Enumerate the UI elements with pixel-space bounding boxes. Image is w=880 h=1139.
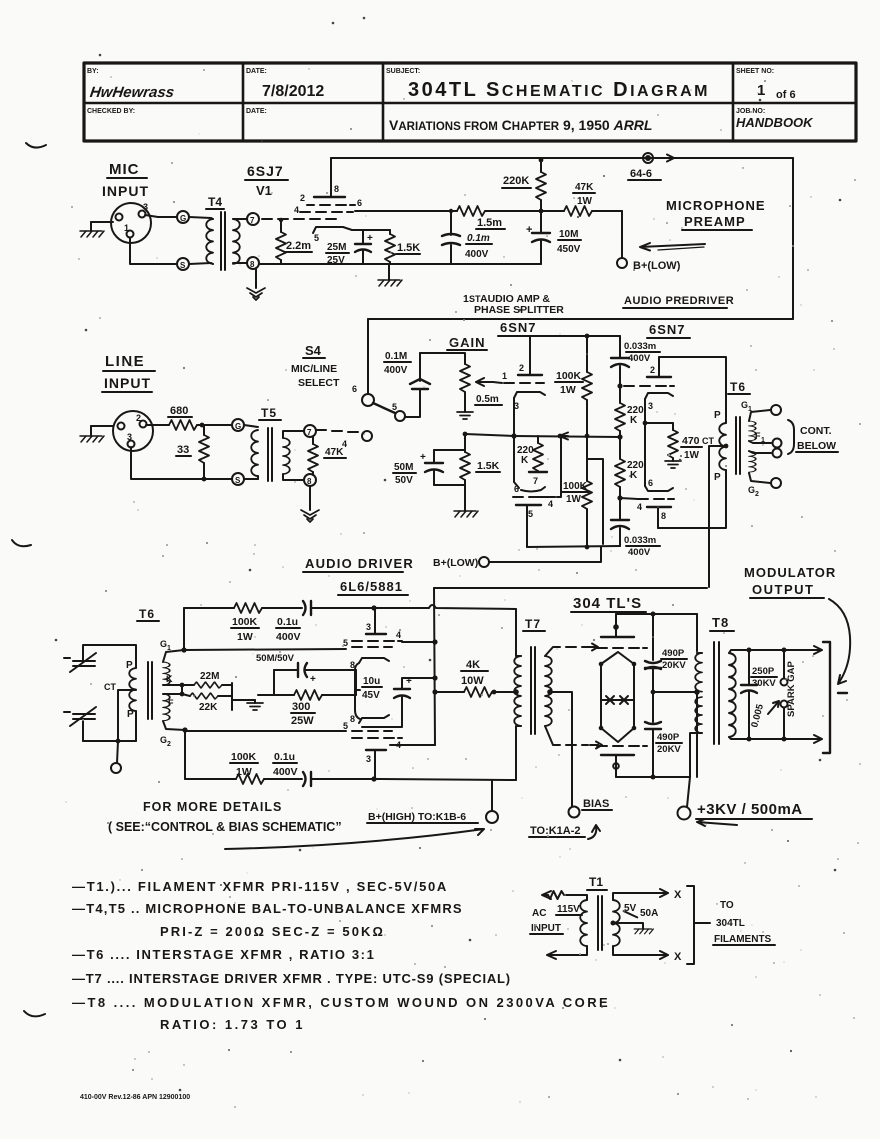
svg-text:6: 6 [648, 478, 653, 488]
svg-text:3: 3 [143, 202, 148, 212]
svg-text:0.033m: 0.033m [624, 341, 656, 352]
0.1m 400V value label [465, 233, 492, 260]
T7 secondary CT to bias [547, 689, 572, 806]
304TL lower plate [601, 755, 634, 777]
svg-text:50A: 50A [640, 908, 658, 919]
47K 1W value label [573, 182, 595, 207]
svg-text:1.5K: 1.5K [477, 460, 500, 472]
T6 bottom CT tap [104, 682, 136, 741]
grid resistor 22K [182, 693, 232, 699]
svg-text:4: 4 [294, 205, 299, 215]
svg-text:490P: 490P [662, 648, 685, 659]
svg-text:2: 2 [167, 741, 171, 748]
6SJ7 screen grid dashes [300, 211, 353, 213]
svg-text:BIAS: BIAS [583, 798, 609, 810]
note T8 line2 [160, 1017, 305, 1032]
wire line pin3 down to terminal S [131, 447, 232, 479]
T6 bottom secondary upper [163, 662, 170, 685]
wire terminal 8 to ground [309, 486, 311, 510]
10u 45V value label [362, 676, 382, 701]
output bottom wire with arrow [747, 735, 823, 743]
flat ground under 470 [665, 461, 681, 468]
47K value label line [324, 447, 346, 458]
punch hole mark top-left [26, 143, 46, 148]
wire cathode node [352, 229, 390, 231]
304TL upper plate [601, 614, 634, 637]
svg-text:2: 2 [300, 193, 305, 203]
svg-text:7/8/2012: 7/8/2012 [262, 83, 324, 100]
6SJ7 cathode [313, 227, 352, 243]
T6 secondary winding lower [749, 451, 756, 472]
wire ground to line connector [91, 425, 113, 427]
svg-text:S4: S4 [305, 343, 322, 358]
304TL lower grid dashes [597, 745, 647, 747]
svg-text:8: 8 [334, 184, 339, 194]
svg-text:INPUT: INPUT [102, 183, 149, 199]
L wire to B plus low [587, 459, 603, 544]
T8 secondary winding [729, 653, 736, 737]
svg-text:CONT.: CONT. [800, 425, 832, 437]
svg-text:1W: 1W [237, 631, 253, 643]
T7 core [531, 647, 535, 734]
1.5K value label first 6SN7 [476, 460, 500, 472]
svg-text:6SN7: 6SN7 [649, 322, 686, 337]
470 1W value label [681, 435, 702, 461]
6L6 lower screen feed [402, 744, 435, 746]
T8 core [714, 642, 719, 744]
shared cathode bracket [355, 663, 360, 719]
T6 center tap wire [709, 444, 728, 587]
contact symbol upper left [64, 653, 96, 672]
neutralizing cap 490P 20KV lower [645, 692, 661, 777]
T1 secondary bottom to X [613, 946, 682, 963]
cathode network node wire [258, 670, 274, 695]
cathode resistor 300 25W [274, 690, 356, 700]
svg-text:4: 4 [548, 499, 553, 509]
wire T5 secondary top to terminal 7 [283, 431, 304, 438]
T6 primary winding top [719, 423, 726, 470]
T6 core [736, 417, 740, 474]
line XLR connector [113, 411, 153, 451]
wire upper contact to T6 primary top [83, 645, 136, 668]
svg-text:T6: T6 [139, 607, 155, 621]
svg-text:4: 4 [342, 439, 347, 449]
svg-text:K: K [630, 470, 638, 481]
T6 bottom ground rail [83, 739, 136, 744]
svg-text:0.1u: 0.1u [277, 616, 298, 628]
svg-text:1.5m: 1.5m [477, 217, 502, 229]
4K 10W value label [461, 659, 488, 687]
svg-text:—T7 .... INTERSTAGE DRIVER XFM: —T7 .... INTERSTAGE DRIVER XFMR . TYPE: … [72, 971, 511, 986]
svg-text:100K: 100K [563, 481, 588, 492]
arrow on top rail [664, 155, 674, 162]
output top wire with arrow [747, 646, 823, 654]
grid resistor tie bar [232, 683, 255, 710]
svg-text:3: 3 [366, 754, 371, 764]
title block column divider 1 [242, 63, 245, 141]
chevron ground under T5 [301, 510, 319, 522]
svg-text:470: 470 [682, 435, 700, 447]
svg-text:6: 6 [352, 384, 357, 394]
svg-text:1W: 1W [577, 196, 593, 207]
svg-text:220K: 220K [503, 175, 529, 187]
wire T4 secondary top to terminal 7 [233, 218, 247, 220]
terminal circle S line [232, 473, 244, 485]
T1 secondary CT ground [611, 921, 654, 934]
output mark dash [838, 692, 847, 694]
mid rail of first 6SN7 [514, 433, 623, 440]
svg-text:6: 6 [357, 198, 362, 208]
MODULATOR OUTPUT label [744, 565, 836, 598]
4K 10W resistor [432, 687, 516, 697]
wire B+ drop to terminal [621, 211, 623, 258]
svg-text:45V: 45V [362, 690, 380, 701]
T5 secondary winding [283, 438, 290, 474]
T1 primary winding [580, 900, 587, 946]
1.5K value label [396, 242, 420, 254]
T6 primary P labels [702, 410, 721, 483]
490P 20KV lower label [656, 732, 682, 755]
T7 primary winding [513, 609, 521, 780]
S4 line contact [362, 431, 372, 441]
preamp pointer arrow [640, 243, 705, 251]
wire gain wiper to 6SN7 grid [493, 382, 502, 383]
6L6 lower tube unit [350, 714, 402, 779]
T4 primary winding [206, 218, 213, 264]
cathode resistor 470 1W [668, 423, 678, 461]
svg-text:490P: 490P [657, 732, 680, 743]
svg-text:CT: CT [702, 436, 714, 446]
svg-text:FOR MORE DETAILS: FOR MORE DETAILS [143, 800, 282, 814]
note T1 filament xfmr [72, 879, 448, 894]
0.1u 400V bottom label [273, 751, 298, 778]
dashed wire terminal 7 to S4 line contact [316, 430, 358, 449]
svg-text:AUDIO DRIVER: AUDIO DRIVER [305, 556, 414, 571]
S4 switch label [291, 343, 340, 389]
screen bus top corner wire [434, 587, 707, 589]
svg-text:0.1u: 0.1u [274, 751, 295, 763]
svg-text:CT: CT [104, 682, 116, 692]
F2 node wire [163, 685, 184, 708]
B+(HIGH) label and terminal [367, 780, 498, 823]
490P 20KV upper label [661, 648, 687, 671]
svg-text:1W: 1W [566, 494, 582, 505]
wire G to T4 primary [189, 217, 211, 218]
resistor 680 [169, 420, 204, 430]
wire rail down to S4 mic contact [367, 319, 369, 394]
svg-text:LINE: LINE [105, 353, 145, 370]
svg-text:BY:: BY: [87, 68, 99, 75]
6SN7c cathode [645, 393, 673, 411]
svg-text:400V: 400V [276, 631, 301, 643]
grid resistor 22M [182, 682, 232, 688]
punch hole mark bottom-left [24, 1011, 45, 1016]
svg-text:5: 5 [343, 721, 348, 731]
splitter resistor 220K first [529, 436, 547, 486]
svg-text:+: + [310, 674, 316, 685]
feedback cap 0.1u 400V top [303, 601, 377, 615]
svg-text:SPARK GAP: SPARK GAP [786, 661, 797, 717]
wire down to cathode RC [434, 432, 467, 450]
svg-text:G: G [741, 400, 748, 410]
304TL upper grid dashes [597, 647, 647, 649]
G1 node wire [160, 639, 187, 662]
note T7 [72, 971, 511, 986]
cathode bypass 50M/50V driver [274, 663, 356, 685]
T4 secondary winding [233, 219, 240, 264]
terminal circle 8 [247, 257, 259, 269]
6SN7a cathode1 lead down [511, 398, 516, 439]
wire line pin2 to 680 [146, 424, 169, 426]
svg-text:+: + [526, 224, 532, 236]
680 value label [168, 405, 192, 417]
svg-text:10W: 10W [461, 675, 484, 687]
6SN7a plate1 [518, 336, 542, 375]
F2 terminal wire [749, 449, 782, 458]
svg-text:T6: T6 [730, 380, 746, 394]
svg-text:G: G [748, 485, 755, 495]
svg-text:BELOW: BELOW [797, 440, 836, 452]
svg-text:304TL SCHEMATIC DIAGRAM: 304TL SCHEMATIC DIAGRAM [408, 79, 710, 101]
screen bus vertical [390, 588, 435, 745]
T8 primary lower winding [690, 692, 702, 777]
svg-text:T7: T7 [525, 617, 541, 631]
1.5m value label [476, 217, 505, 229]
T7 label [523, 617, 545, 631]
connector 64-6 [628, 153, 661, 180]
ground on mic bottom rail [378, 264, 402, 286]
svg-text:0.033m: 0.033m [624, 535, 656, 546]
wire cathode to 470 [645, 422, 673, 424]
6L6 upper grid wire [184, 638, 348, 650]
wire mic pin2 to terminal G [145, 215, 158, 217]
svg-text:1W: 1W [684, 450, 700, 461]
6L6 upper screen feed [402, 639, 438, 644]
driver bottom rail with 100K and cap [185, 774, 302, 784]
TO K1A-2 label [529, 825, 600, 839]
svg-text:304 TL'S: 304 TL'S [573, 595, 642, 612]
svg-text:20KV: 20KV [662, 660, 686, 671]
svg-text:8: 8 [307, 477, 312, 486]
220K value label [502, 175, 531, 188]
6SJ7 label [245, 163, 288, 180]
T5 core [268, 428, 272, 481]
svg-text:X: X [674, 889, 682, 901]
T8 secondary bottom lead [729, 737, 749, 739]
svg-text:3: 3 [648, 401, 653, 411]
note T4 T5 line2 [160, 924, 385, 939]
svg-text:1: 1 [502, 371, 507, 381]
svg-text:—T8 .... MODULATION XFMR, CUST: —T8 .... MODULATION XFMR, CUSTOM WOUND O… [72, 995, 610, 1010]
304TL bottom rail [616, 775, 690, 780]
svg-text:TO: TO [720, 900, 734, 911]
modulator arrow [829, 599, 850, 684]
first 6SN7 label [498, 320, 541, 336]
svg-text:HANDBOOK: HANDBOOK [736, 115, 814, 130]
chevron ground under T4 [247, 288, 265, 300]
S4 pole contact and arm [373, 402, 405, 421]
6SN7c plate [647, 357, 671, 377]
svg-text:S: S [235, 476, 241, 485]
svg-text:V1: V1 [256, 183, 272, 198]
G2 node wire [160, 721, 188, 748]
note T8 [72, 995, 610, 1010]
svg-text:2: 2 [136, 413, 141, 423]
T1 output bracket [687, 886, 694, 964]
svg-text:4: 4 [396, 630, 401, 640]
svg-text:SELECT: SELECT [298, 377, 340, 389]
T6 bottom terminal [111, 741, 121, 773]
right rail down from top [792, 158, 794, 319]
svg-text:+: + [420, 452, 426, 463]
svg-text:OUTPUT: OUTPUT [752, 582, 814, 597]
svg-text:400V: 400V [465, 249, 489, 260]
svg-text:400V: 400V [384, 365, 408, 376]
6L6 upper tube unit [350, 608, 402, 670]
6SJ7 control grid dashes [262, 218, 336, 220]
6SN7b plate [516, 505, 541, 547]
svg-text:P: P [714, 410, 721, 421]
svg-text:+: + [367, 233, 373, 244]
svg-text:100K: 100K [556, 370, 582, 382]
svg-text:K: K [166, 674, 173, 684]
svg-text:0.1M: 0.1M [385, 351, 407, 362]
terminal circle 7 line [304, 425, 316, 437]
svg-text:—T4,T5 .. MICROPHONE BAL-TO-UN: —T4,T5 .. MICROPHONE BAL-TO-UNBALANCE XF… [72, 901, 463, 916]
svg-text:304TL: 304TL [716, 918, 745, 929]
cathode resistor 1.5K [385, 230, 395, 264]
svg-text:T1: T1 [589, 875, 603, 889]
screen wire pin6 to B+ node [355, 210, 457, 212]
title block column divider 3 [732, 63, 735, 141]
T6 bottom primary winding [126, 660, 136, 720]
svg-text:0.1m: 0.1m [467, 233, 490, 244]
T4 core [221, 212, 225, 270]
svg-text:T4: T4 [208, 195, 222, 209]
screen dropping resistor 1.5m [457, 206, 541, 216]
2.2m value label [285, 240, 312, 252]
100K 1W top feedback label [231, 616, 259, 643]
T7 secondary winding [545, 656, 552, 726]
svg-text:( SEE:“CONTROL & BIAS SCHEMATI: ( SEE:“CONTROL & BIAS SCHEMATIC” [108, 820, 342, 834]
svg-text:1W: 1W [560, 384, 576, 396]
6SN7 second grid1 resistor chain 220K upper [615, 386, 625, 437]
cathode bypass 50M 50V first 6SN7 [420, 450, 443, 485]
decoupling resistor 47K 1W [541, 206, 622, 216]
note T4 T5 [72, 901, 463, 916]
coupling bottom rail [527, 546, 620, 547]
caps midpoint to T8 CT [651, 689, 700, 695]
+3KV 500mA label [696, 801, 812, 826]
F1 terminal wire [749, 431, 782, 448]
svg-text:50M: 50M [394, 462, 413, 473]
shared cathode lead second tube [643, 399, 648, 486]
svg-text:3: 3 [366, 622, 371, 632]
svg-text:1: 1 [761, 437, 765, 444]
svg-text:B+(HIGH) TO:K1B-6: B+(HIGH) TO:K1B-6 [368, 811, 466, 823]
svg-text:6L6/5881: 6L6/5881 [340, 579, 403, 594]
mic XLR connector [111, 202, 151, 243]
rail to S4 [368, 318, 793, 320]
250P 30KV label [751, 666, 777, 689]
terminal circle G line [232, 419, 244, 431]
svg-text:1: 1 [124, 223, 129, 233]
svg-text:400V: 400V [628, 353, 651, 364]
svg-text:2: 2 [755, 491, 759, 498]
22K value label [199, 702, 218, 713]
transformer T4 label [206, 195, 224, 209]
S4 mic contact [352, 384, 374, 406]
T8 secondary top lead [729, 650, 749, 653]
svg-text:P: P [126, 660, 133, 671]
gain pot 0.5m [460, 364, 470, 407]
6L6 lower grid wire [185, 721, 348, 731]
svg-text:+: + [406, 676, 412, 687]
T1 primary top lead with arrow [542, 891, 587, 900]
svg-text:7: 7 [533, 476, 538, 486]
T1 primary bottom lead with arrow [547, 946, 587, 959]
title block outer border [84, 63, 856, 141]
swoop arrow to K1B-6 [225, 829, 484, 849]
T6 secondary winding upper [749, 421, 756, 441]
svg-text:SUBJECT:: SUBJECT: [386, 68, 420, 75]
6SN7b cathode elbow [514, 436, 545, 494]
wire S to T4 primary bottom [189, 263, 211, 264]
svg-text:7: 7 [250, 216, 255, 225]
svg-text:K: K [521, 455, 529, 466]
6SN7a grid1 dashes [502, 371, 544, 383]
cathode resistor 1.5K first 6SN7 [460, 450, 470, 485]
svg-text:100K: 100K [231, 751, 257, 763]
svg-text:33: 33 [177, 444, 189, 456]
svg-text:—T1.)... FILAMENT XFMR PRI-115: —T1.)... FILAMENT XFMR PRI-115V , SEC-5V… [72, 879, 448, 894]
33 value label [176, 444, 191, 456]
svg-text:30KV: 30KV [752, 678, 776, 689]
punch hole mark middle-left [12, 540, 31, 546]
T5 primary winding [244, 425, 258, 479]
T8 primary upper winding [695, 614, 702, 692]
svg-text:6: 6 [514, 484, 519, 494]
ground at mic input [80, 222, 104, 237]
6SN7d grid lead [620, 498, 638, 499]
flat ground under gain pot [457, 407, 473, 419]
wire 680 to terminal G line [202, 424, 232, 426]
wire terminal 8 down to ground [255, 268, 257, 288]
coupling cap 250P 30KV [741, 650, 757, 739]
svg-text:410-00V Rev.12-86 APN 12900: 410-00V Rev.12-86 APN 12900100 [80, 1094, 190, 1101]
grid resistor 47K line [308, 437, 318, 475]
T6 bottom secondary lower [163, 694, 170, 721]
svg-text:P: P [714, 472, 721, 483]
6SN7d grid dashes [637, 499, 674, 512]
svg-text:6SJ7: 6SJ7 [247, 163, 284, 179]
svg-text:1.5K: 1.5K [397, 242, 420, 254]
svg-text:X: X [674, 951, 682, 963]
svg-text:8: 8 [350, 714, 355, 724]
cathode bypass 10u 45V [362, 675, 438, 727]
304TL envelope hexagon [601, 652, 634, 742]
6SN7d cathode [645, 478, 673, 491]
svg-text:MIC: MIC [109, 161, 140, 178]
T1 core [598, 896, 602, 950]
SEE CONTROL BIAS note [108, 820, 342, 834]
svg-text:5: 5 [392, 402, 397, 412]
svg-text:450V: 450V [557, 244, 581, 255]
304TL filament [601, 696, 634, 704]
title block column divider 2 [382, 63, 385, 141]
grid leak resistor 2.2m [276, 218, 286, 264]
svg-text:50M/50V: 50M/50V [256, 653, 295, 664]
